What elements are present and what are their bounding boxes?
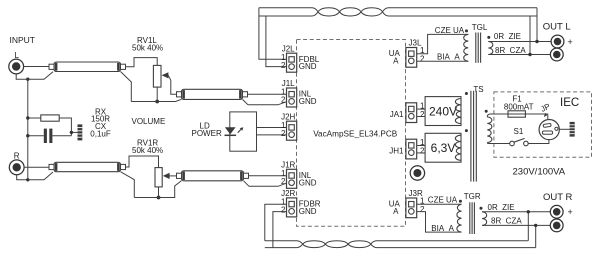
svg-text:GND: GND — [299, 178, 317, 187]
240V winding box — [425, 97, 461, 126]
TS 240V phase dot — [465, 92, 468, 95]
wire JA1 pin1 to 240V winding — [417, 108, 425, 110]
chassis earth bar at IEC — [570, 122, 575, 137]
IEC inlet connector — [539, 120, 559, 140]
svg-text:VacAmpSE_EL34.PCB: VacAmpSE_EL34.PCB — [313, 129, 398, 138]
svg-text:JA1: JA1 — [390, 110, 404, 119]
JP label — [539, 102, 551, 114]
output jack OUT L - — [550, 48, 563, 61]
wire L coax shield down — [121, 72, 132, 102]
wire J3R pin2 to TGR primary (BIA A) — [417, 212, 462, 233]
ground bus vertical — [27, 79, 29, 180]
output jack OUT R + — [550, 205, 563, 218]
wire bus to RX — [28, 117, 41, 119]
wire RV1L bottom to ground — [156, 87, 158, 101]
wire TGL 8R CZA to OUT L- — [488, 54, 550, 56]
svg-text:0R ZIE: 0R ZIE — [488, 203, 515, 212]
junction R sleeve / ground bus — [26, 178, 29, 181]
svg-text:2: 2 — [420, 205, 425, 214]
wire R coax shield down — [121, 172, 135, 198]
wire FDBR feedback (J2R-1 to OUT R 0R) twisted pair upper — [265, 204, 287, 241]
svg-text:2: 2 — [281, 61, 286, 70]
wire GND feedback (J2R-2 to OUT R 8R) twisted pair lower — [273, 212, 287, 248]
LED LD housing box — [230, 112, 257, 151]
svg-text:INPUT: INPUT — [10, 35, 36, 45]
wire node to chassis — [71, 131, 77, 133]
TS 6,3V winding arcs — [455, 135, 461, 160]
junction RV1L ground — [155, 100, 159, 104]
wire J3L pin1 to TGL primary (CZE UA) — [417, 34, 469, 53]
coax cable L to J1L — [182, 89, 243, 99]
potentiometer RV1R — [155, 168, 162, 187]
svg-text:BIA A: BIA A — [431, 224, 454, 233]
6,3V winding box — [425, 133, 461, 162]
svg-text:TGR: TGR — [464, 192, 481, 201]
TGL secondary phase dot — [487, 36, 490, 39]
svg-text:GND: GND — [299, 62, 317, 71]
TS 6,3V phase dot — [465, 129, 468, 132]
RV1L wiper arrow — [162, 72, 169, 78]
connector J2R — [287, 198, 297, 217]
wire L jack sleeve to ground bus — [16, 72, 53, 80]
svg-text:R: R — [14, 152, 20, 161]
svg-text:2: 2 — [281, 177, 286, 186]
TS mains phase dot — [485, 110, 488, 113]
svg-text:8R CZA: 8R CZA — [491, 217, 522, 226]
junction bus-CX — [26, 134, 29, 137]
svg-text:50k 40%: 50k 40% — [132, 44, 163, 53]
svg-text:TS: TS — [473, 85, 483, 94]
svg-text:6,3V: 6,3V — [431, 141, 456, 155]
svg-text:50k 40%: 50k 40% — [132, 146, 163, 155]
connector JH1 — [406, 139, 417, 159]
svg-text:CZE UA: CZE UA — [428, 196, 458, 205]
TS 240V winding arcs — [455, 99, 461, 124]
wire TGL 0R ZIE to OUT L+ — [488, 41, 551, 43]
svg-text:BIA A: BIA A — [437, 52, 460, 61]
connector J2H — [287, 121, 297, 140]
junction GND-8R (R) — [534, 224, 537, 227]
svg-text:OUT L: OUT L — [543, 21, 571, 32]
svg-text:0,1uF: 0,1uF — [90, 130, 111, 139]
wire LED to J2H pin1 — [257, 127, 287, 129]
wire TS primary bottom to switch S1 — [487, 143, 509, 144]
transformer TGL — [464, 34, 469, 61]
fuse F1 — [508, 111, 525, 117]
TGR secondary phase dot — [480, 207, 483, 210]
output jack OUT R - — [550, 219, 563, 232]
wire IEC earth to chassis — [559, 128, 569, 130]
wire LED to J2H pin2 — [257, 134, 287, 136]
wire JH1 pin2 to 6,3V winding — [417, 152, 425, 154]
junction FDBL-0R — [535, 40, 538, 43]
junction node-chassis — [70, 131, 73, 134]
wire R jack sleeve to ground bus — [17, 172, 53, 180]
wire CX to node — [52, 135, 71, 137]
svg-text:8R CZA: 8R CZA — [495, 46, 526, 55]
svg-text:240V: 240V — [429, 105, 457, 119]
connector J3L — [406, 48, 417, 68]
wire L coax core to RV1L top — [126, 58, 158, 67]
TS mains primary winding — [487, 117, 492, 143]
svg-text:GND: GND — [299, 97, 317, 106]
switch S1 — [510, 141, 515, 146]
svg-text:800mAT: 800mAT — [504, 102, 534, 111]
potentiometer RV1L — [153, 65, 161, 87]
RV1R wiper arrow — [163, 173, 170, 179]
capacitor CX — [44, 129, 47, 143]
wire R coax4 shield to J1R pin2 — [244, 181, 287, 187]
wire RV1R bottom to ground — [158, 187, 160, 198]
connector J3R — [406, 198, 417, 218]
coax cable R to J1R — [182, 171, 244, 181]
svg-text:CZE UA: CZE UA — [435, 26, 465, 35]
wire R ground run to coax4 shield — [134, 181, 181, 198]
svg-text:2: 2 — [281, 206, 286, 215]
junction bus-RX — [26, 116, 29, 119]
wire J3R pin1 to TGR primary (CZE UA) — [417, 203, 462, 205]
svg-text:JH1: JH1 — [389, 146, 404, 155]
mounting hole / chassis point — [410, 166, 424, 180]
connector J1R — [287, 169, 297, 188]
wire JA1 pin2 to 240V winding — [417, 116, 425, 118]
connector JA1 — [406, 103, 417, 123]
svg-text:2: 2 — [281, 129, 286, 138]
svg-text:A: A — [393, 57, 399, 66]
transformer TGR — [457, 204, 462, 232]
svg-text:0R ZIE: 0R ZIE — [494, 32, 521, 41]
svg-text:A: A — [393, 207, 399, 216]
IEC module outline (dashed) — [494, 92, 592, 157]
junction L sleeve / ground bus — [26, 78, 29, 81]
svg-text:GND: GND — [299, 207, 317, 216]
svg-text:2: 2 — [420, 146, 425, 155]
junction RV1R ground — [157, 196, 161, 200]
svg-text:2: 2 — [420, 55, 425, 64]
TGL primary phase dot — [465, 29, 468, 32]
svg-text:230V/100VA: 230V/100VA — [513, 167, 566, 178]
wire FDBL feedback (J2L-1 to OUT L 0R) twisted pair upper — [259, 8, 287, 60]
svg-text:+: + — [568, 207, 573, 217]
wire bus to CX — [28, 135, 44, 137]
svg-text:S1: S1 — [514, 127, 524, 136]
connector J1L — [287, 88, 297, 107]
wire GND feedback (J2L-2 to OUT L 8R) twisted pair lower — [266, 16, 287, 67]
coax cable L input — [54, 62, 121, 72]
wire JH1 pin1 to 6,3V winding — [417, 145, 425, 147]
TS core — [470, 91, 472, 182]
wire L coax2 shield to J1L pin2 — [243, 99, 287, 104]
chassis ground symbol — [78, 124, 83, 140]
wire R coax core to RV1R top — [126, 156, 159, 168]
connector J2L — [287, 53, 297, 72]
wire R jack tip to coax — [24, 166, 49, 168]
svg-text:POWER: POWER — [192, 129, 222, 138]
input jack L — [9, 59, 24, 74]
junction FDBR-0R — [527, 210, 530, 213]
resistor RX — [41, 115, 59, 121]
wire RX to node — [59, 118, 71, 136]
coax cable R input — [54, 162, 121, 171]
PCB outline VacAmpSE_EL34.PCB (dashed) — [297, 40, 406, 227]
svg-text:OUT R: OUT R — [543, 192, 573, 203]
wire TGR 0R ZIE to OUT R+ — [482, 211, 550, 213]
wire L coax2 core to J1L pin1 — [248, 93, 287, 95]
wire L jack tip to coax — [24, 66, 49, 68]
input jack R — [9, 160, 24, 175]
svg-text:IEC: IEC — [560, 97, 579, 109]
svg-text:TGL: TGL — [472, 23, 488, 32]
TGR primary phase dot — [459, 200, 462, 203]
wire TS primary top to fuse F1 — [487, 114, 548, 120]
wire S1 to IEC inlet — [528, 140, 549, 144]
JP arrow — [544, 113, 547, 117]
wire R coax4 core to J1R pin1 — [249, 175, 287, 177]
svg-text:+: + — [568, 37, 573, 47]
LED LD symbol — [225, 127, 236, 134]
svg-text:2: 2 — [420, 110, 425, 119]
svg-text:VOLUME: VOLUME — [132, 117, 166, 126]
wire L ground run to coax2 shield — [131, 99, 181, 101]
wire TGR 8R CZA to OUT R- — [482, 224, 550, 226]
LED light arrow — [238, 129, 241, 132]
svg-text:2: 2 — [281, 96, 286, 105]
output jack OUT L + — [551, 35, 564, 48]
wire J3L pin2 to TGL primary (BIA A) — [417, 60, 469, 62]
junction GND-8R — [528, 53, 531, 56]
